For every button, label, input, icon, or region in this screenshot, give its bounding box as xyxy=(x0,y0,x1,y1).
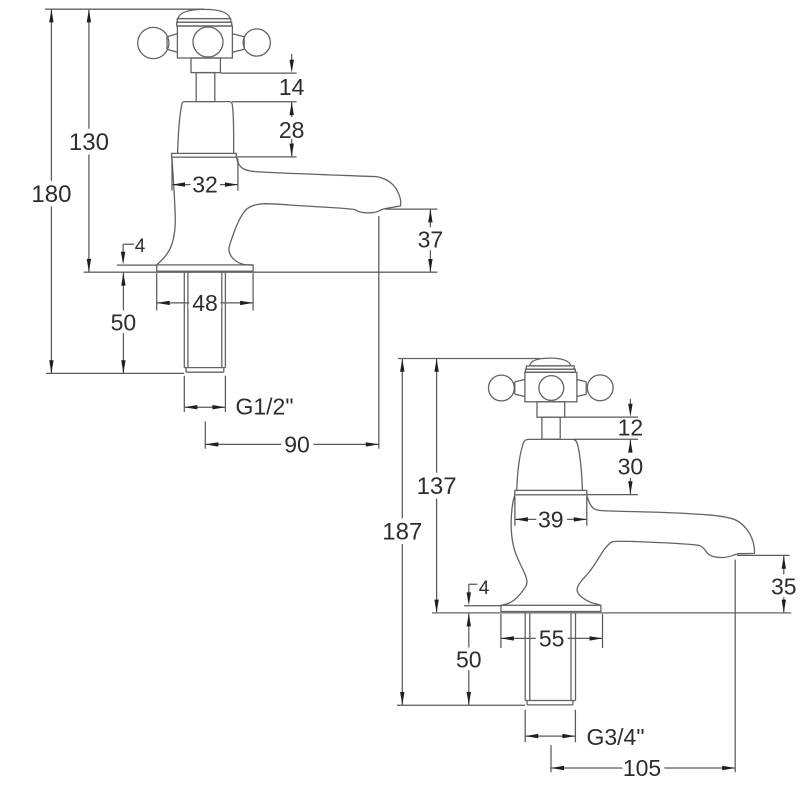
dimension 14/28 ticks tap1 xyxy=(221,73,297,157)
tap2 collar xyxy=(537,402,565,417)
tap2 flange plate xyxy=(501,605,601,611)
dimension 137 line xyxy=(436,359,438,613)
svg-text:48: 48 xyxy=(192,290,218,316)
arrows 32 xyxy=(172,182,185,186)
tap1 handle left arm xyxy=(167,34,177,52)
dimension 32 tap1 xyxy=(172,159,238,191)
tap2 handle front ball xyxy=(539,376,564,401)
tap1 handle front ball xyxy=(193,27,223,57)
tap1 handle right arm xyxy=(232,34,244,52)
arrows 180 xyxy=(49,9,53,22)
wire: top extension line tap1 xyxy=(45,8,204,10)
tap1 handle dome cap xyxy=(178,9,230,18)
tap2 handle right ball xyxy=(587,375,613,401)
dimension G3/4 tap2 xyxy=(525,710,575,742)
arrow 50 bottom tap2 xyxy=(467,692,471,705)
arrows 130 xyxy=(87,9,91,22)
dimension 48 tap1 xyxy=(157,273,253,310)
dimension 187 line xyxy=(401,359,403,705)
svg-text:50: 50 xyxy=(456,647,482,673)
arrows 4 tap2 xyxy=(467,592,471,605)
wire: tap2 mounting baseline xyxy=(432,612,791,614)
svg-text:90: 90 xyxy=(284,432,310,458)
svg-text:39: 39 xyxy=(538,507,564,533)
dimension 4 tap2 leader and tick xyxy=(464,584,501,605)
svg-text:55: 55 xyxy=(539,626,565,652)
dimension G1/2 tap1 xyxy=(184,376,225,412)
tap2 body left edge xyxy=(501,495,527,606)
dimension 4 tap1 leader and tick xyxy=(117,244,157,265)
tap2 handle dome cap xyxy=(530,358,571,366)
dimension 12/30 arrow shafts xyxy=(629,399,631,494)
tap2 handle left arm xyxy=(515,380,525,397)
arrows 187 xyxy=(400,359,404,372)
arrows 39 xyxy=(515,517,528,521)
dimension 105 tap2 xyxy=(551,745,735,772)
arrows 35 xyxy=(782,556,786,569)
wire: spout outlet extension line tap1 xyxy=(378,216,380,449)
dimension 35 tap2 xyxy=(737,555,790,612)
svg-text:12: 12 xyxy=(618,415,644,441)
svg-text:180: 180 xyxy=(31,181,71,208)
svg-text:50: 50 xyxy=(111,310,137,336)
svg-text:4: 4 xyxy=(479,578,490,599)
svg-text:G1/2": G1/2" xyxy=(235,394,293,420)
dimension 55 tap2 xyxy=(501,614,603,648)
tap2 handle dome base steps xyxy=(526,366,574,369)
tap2 handle block xyxy=(525,372,577,402)
wire: tap1 mounting baseline xyxy=(84,271,438,273)
svg-text:137: 137 xyxy=(417,473,457,500)
svg-text:32: 32 xyxy=(192,172,218,198)
tap1 flange plate xyxy=(157,265,253,271)
arrows 12/30 xyxy=(628,404,632,417)
dimension 39 tap2 xyxy=(515,497,587,526)
tap2 stem xyxy=(542,417,560,439)
arrows 137 xyxy=(434,359,438,372)
dimension 50 line tap2 xyxy=(468,613,470,705)
svg-text:4: 4 xyxy=(135,236,146,257)
svg-text:105: 105 xyxy=(623,755,661,781)
svg-text:14: 14 xyxy=(279,74,305,100)
arrows 37 xyxy=(428,209,432,222)
dimension 37 tap1 xyxy=(385,209,437,272)
svg-text:30: 30 xyxy=(618,454,644,480)
dimension 50 line tap1 xyxy=(122,273,124,374)
wire: top extension line tap2 xyxy=(398,358,540,360)
dimension 14/28 arrow shafts xyxy=(291,54,293,157)
tap1 handle block xyxy=(177,26,232,58)
svg-text:G3/4": G3/4" xyxy=(586,724,644,750)
arrows 14/28 xyxy=(290,60,294,73)
arrows 105 xyxy=(551,766,564,770)
tap1 bonnet ring xyxy=(172,153,237,157)
wire: bottom tick tap2 xyxy=(397,704,525,706)
tap1 spout and body right edge xyxy=(229,157,401,265)
tap1 collar xyxy=(191,58,220,73)
dimension 130 line xyxy=(88,9,90,271)
arrows 4 tap1 xyxy=(121,252,125,265)
dimension 12/30 ticks tap2 xyxy=(565,417,638,495)
arrows 90 xyxy=(205,442,218,446)
tap2 spout and body right edge xyxy=(577,495,754,605)
wire: spout outlet extension line tap2 xyxy=(734,560,736,773)
wire: bottom tick tap1 xyxy=(46,372,184,374)
arrows G1/2 xyxy=(184,405,197,409)
svg-text:130: 130 xyxy=(69,129,109,156)
tap2 handle left ball xyxy=(489,375,515,401)
dimension 90 tap1 xyxy=(205,421,378,448)
arrow 50 bottom tap1 xyxy=(121,360,125,373)
svg-text:187: 187 xyxy=(382,519,422,546)
dimension 180 line xyxy=(50,9,52,373)
tap2 handle right arm xyxy=(577,380,586,397)
arrows 48 xyxy=(157,301,170,305)
tap1 handle dome base steps xyxy=(177,19,230,23)
tap1 threaded shank xyxy=(184,272,225,372)
arrows 55 xyxy=(501,636,514,640)
svg-text:35: 35 xyxy=(771,574,797,600)
tap1 stem xyxy=(196,73,215,102)
tap1 bell bonnet xyxy=(178,102,234,154)
tap1 body left edge xyxy=(157,157,175,265)
tap2 threaded shank xyxy=(525,613,575,705)
svg-text:28: 28 xyxy=(279,117,305,143)
tap2 bonnet ring xyxy=(515,490,587,494)
arrows G3/4 xyxy=(525,734,538,738)
tap1 handle left ball xyxy=(138,27,169,58)
tap1 handle right ball xyxy=(243,29,270,56)
tap2 bell bonnet xyxy=(517,439,583,490)
svg-text:37: 37 xyxy=(418,227,444,253)
